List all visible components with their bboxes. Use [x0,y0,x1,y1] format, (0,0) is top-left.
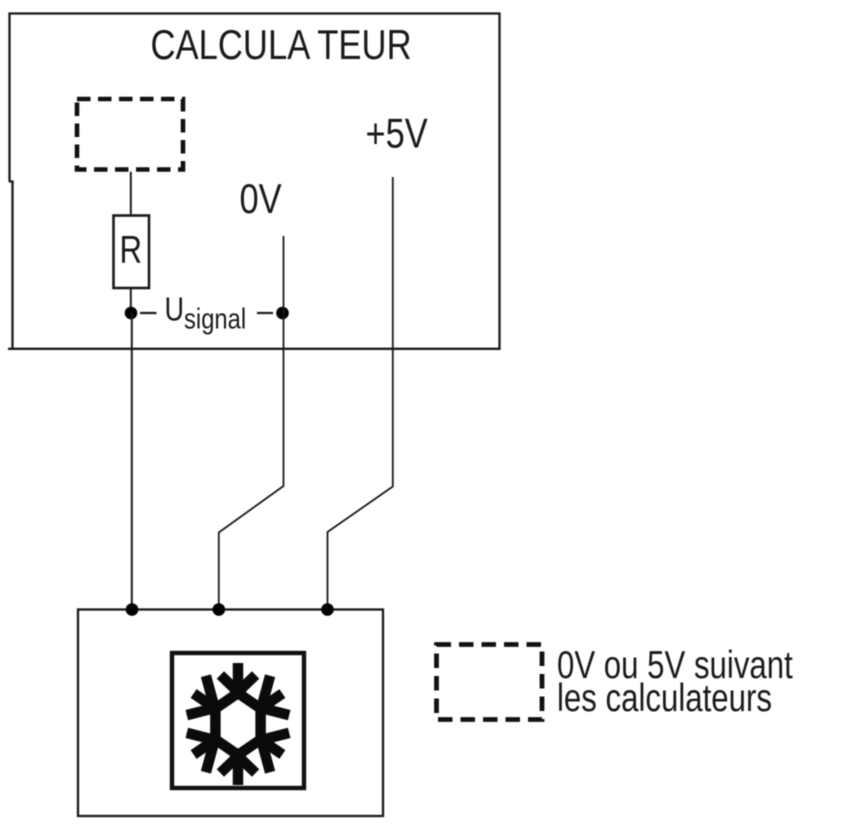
sensor box (evaporator temperature sensor) [78,610,383,817]
resistor R [114,216,150,289]
node A (signal junction at resistor) [125,307,138,320]
leader dash left of Usignal label [140,312,157,314]
svg-text:0V: 0V [240,176,282,223]
svg-text:les calculateurs: les calculateurs [557,677,772,720]
node dot 1 on sensor (signal) [126,603,139,616]
0V wire with jog down to sensor [219,313,284,610]
svg-text:+5V: +5V [366,110,429,157]
node dot 2 on sensor (0V) [213,603,226,616]
signal wire (node A down to sensor) [131,313,133,610]
+5V wire with jog down to sensor [328,349,393,610]
node B (0V junction) [276,307,289,320]
wire resistor to signal node [130,288,132,313]
svg-text:CALCULA TEUR: CALCULA TEUR [151,22,412,69]
wire dashed box to resistor R [130,172,132,216]
node dot 3 on sensor (+5V) [321,603,334,616]
dashed box (internal pull-up source, 0V or 5V) [77,99,183,170]
wire +5V vertical (inside box) [392,177,394,349]
svg-text:Usignal: Usignal [165,292,247,335]
svg-text:R: R [120,228,143,271]
snowflake icon [187,663,289,785]
wire 0V vertical (inside box) [283,236,285,313]
calculator box U1 (CALCULATEUR enclosure) [8,14,500,349]
snowflake frame [172,653,304,788]
legend dashed box [437,645,543,720]
leader dash right of Usignal label [257,312,273,314]
